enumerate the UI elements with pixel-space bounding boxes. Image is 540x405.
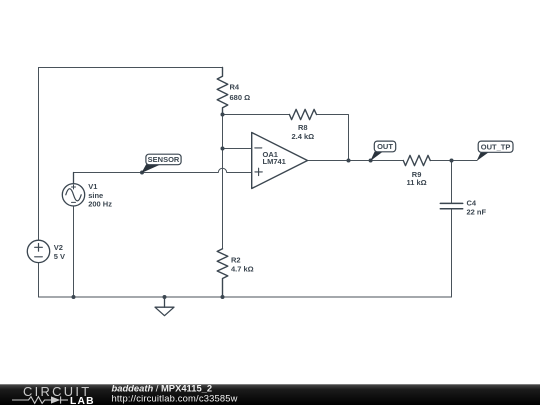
svg-text:V2: V2 bbox=[54, 243, 63, 252]
node dot ground rail bbox=[163, 295, 167, 299]
svg-text:http://circuitlab.com/c33585w: http://circuitlab.com/c33585w bbox=[112, 392, 238, 403]
svg-text:680 Ω: 680 Ω bbox=[230, 93, 251, 102]
svg-text:R2: R2 bbox=[231, 256, 241, 265]
node dot at R4/R8 junction bbox=[221, 113, 225, 117]
svg-text:C4: C4 bbox=[467, 199, 477, 208]
wire sensor line V1 to op-amp + input with hop over vertical bbox=[74, 168, 252, 172]
node dot feedback/output junction bbox=[347, 159, 351, 163]
node dot V1 bottom rail bbox=[72, 295, 76, 299]
node dot OUT flag attach bbox=[369, 159, 373, 163]
ground bbox=[155, 297, 174, 316]
resistor R4 bbox=[217, 68, 228, 115]
resistor R9 bbox=[403, 155, 430, 165]
wire op-amp output to R9 bbox=[308, 160, 404, 162]
resistor R8 bbox=[289, 109, 316, 119]
svg-text:22 nF: 22 nF bbox=[467, 208, 487, 217]
wire node A to node B bbox=[222, 115, 224, 149]
wire node C down to C4 and to bottom rail bbox=[451, 161, 453, 204]
svg-text:LAB: LAB bbox=[70, 396, 95, 405]
svg-text:4.7 kΩ: 4.7 kΩ bbox=[231, 265, 254, 274]
svg-text:V1: V1 bbox=[88, 182, 97, 191]
svg-text:R4: R4 bbox=[230, 83, 240, 92]
voltage source V1 (sine) bbox=[62, 173, 84, 207]
node dot R9/C4 junction bbox=[450, 159, 454, 163]
flag OUT bbox=[370, 141, 395, 161]
wire node A to R8 left bbox=[223, 114, 290, 116]
wire R9 right to OUT_TP attach bbox=[430, 160, 477, 162]
svg-text:OUT_TP: OUT_TP bbox=[481, 143, 511, 152]
wire V1 bottom to bottom rail bbox=[73, 206, 75, 297]
voltage source V2 (5V dc) bbox=[27, 240, 49, 262]
node dot at inverting input junction bbox=[221, 147, 225, 151]
svg-text:SENSOR: SENSOR bbox=[148, 155, 180, 164]
wire V2 bottom to bottom rail bbox=[38, 263, 40, 297]
svg-text:R8: R8 bbox=[298, 123, 308, 132]
svg-text:2.4 kΩ: 2.4 kΩ bbox=[291, 132, 314, 141]
wire node B to op-amp inverting input bbox=[223, 148, 252, 150]
wire node B down to R2 bbox=[222, 149, 224, 249]
wire R8 right to corner and down to output bbox=[317, 115, 349, 161]
wire top from left corner to R4 bbox=[39, 67, 223, 69]
flag SENSOR bbox=[141, 154, 181, 173]
node dot R2 bottom rail bbox=[221, 295, 225, 299]
resistor R2 bbox=[217, 249, 228, 297]
svg-text:OUT: OUT bbox=[377, 142, 393, 151]
svg-text:11 kΩ: 11 kΩ bbox=[406, 178, 426, 187]
op-amp OA1 bbox=[252, 133, 308, 189]
flag OUT_TP bbox=[477, 141, 513, 161]
svg-text:LM741: LM741 bbox=[263, 157, 286, 166]
svg-text:5 V: 5 V bbox=[54, 252, 65, 261]
logo wire-resistor-diode glyph bbox=[12, 396, 68, 403]
wire left vertical from top corner to V2 top bbox=[38, 68, 40, 241]
capacitor C4 bbox=[440, 203, 462, 208]
node dot SENSOR flag attach bbox=[140, 171, 144, 175]
wire bottom rail bbox=[39, 296, 452, 298]
svg-text:200 Hz: 200 Hz bbox=[88, 200, 112, 209]
